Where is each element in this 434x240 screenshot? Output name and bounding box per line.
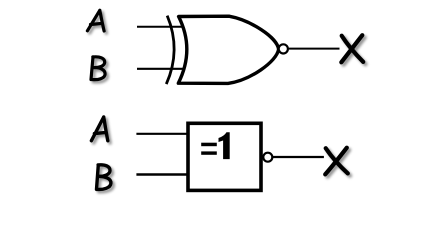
XNOR gate U2 IEC rectangular body xyxy=(188,123,261,190)
wire XNOR gate U1 output to X xyxy=(289,48,340,50)
node B (IEC gate input label) xyxy=(97,165,111,190)
XNOR gate U2 output inversion bubble xyxy=(263,153,272,162)
node X (top gate output label) xyxy=(341,35,363,62)
XNOR gate U1 body (distinctive shape) xyxy=(178,16,278,83)
XNOR gate U2 label "=1" digit 1 xyxy=(219,132,230,159)
node B (top gate input label) xyxy=(91,57,105,80)
XNOR gate U2 label "=1" equals sign xyxy=(201,143,217,147)
wire input B to XNOR gate U2 (IEC) xyxy=(136,173,188,175)
XNOR gate U1 extra input arc (XOR double line) xyxy=(166,16,174,85)
wire input B to XNOR gate U1 xyxy=(137,68,183,70)
node X (IEC gate output label) xyxy=(325,148,348,175)
XNOR gate U1 output inversion bubble xyxy=(279,44,288,53)
wire input A to XNOR gate U2 (IEC) xyxy=(136,133,188,135)
node A (top gate input label) xyxy=(87,10,104,31)
node A (IEC gate input label) xyxy=(91,117,107,141)
wire input A to XNOR gate U1 xyxy=(137,26,183,28)
wire XNOR gate U2 output to X xyxy=(272,156,324,158)
